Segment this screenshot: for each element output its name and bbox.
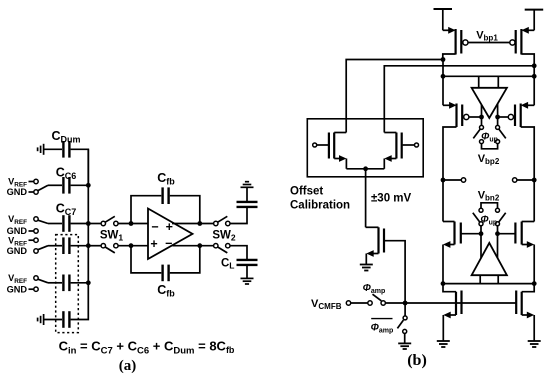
- node sw1-top-fb: [129, 221, 134, 226]
- wire: [246, 187, 248, 202]
- switch SW1 top: [101, 216, 118, 225]
- switch SW2 bottom: [214, 244, 230, 253]
- wire: [71, 282, 89, 284]
- wire M6 gate: [498, 233, 516, 235]
- terminal cal-right: [403, 143, 419, 147]
- capacitor row5: [63, 275, 69, 292]
- wire base stub left: [479, 275, 481, 283]
- wire SW1 top feed: [88, 223, 101, 225]
- wire B to offset-cal right: [384, 66, 534, 133]
- node C: [441, 74, 446, 79]
- node row3-bus: [86, 221, 91, 226]
- ground top-right inverted: [241, 182, 254, 188]
- node out-top: [197, 221, 202, 226]
- wire VCMFB line: [385, 302, 516, 304]
- terminal GND row4: [34, 249, 38, 253]
- wire Vbp2 bracket: [482, 144, 498, 149]
- terminal cal-left: [313, 143, 328, 147]
- terminal GND row5: [29, 287, 39, 291]
- wire right rail upper: [533, 66, 535, 106]
- ground row1 left: [38, 144, 44, 155]
- wire: [71, 245, 89, 247]
- supply rail top-left: [434, 9, 453, 30]
- wire M11 gate: [384, 241, 405, 303]
- wire M2 drain: [521, 54, 534, 66]
- supply rail top-right: [525, 10, 544, 31]
- wire bus: [87, 149, 89, 282]
- node cal-tail: [363, 166, 368, 171]
- wire M3 gate: [469, 116, 482, 118]
- wire feedback top: [131, 196, 161, 224]
- wire M4 gate: [498, 116, 509, 118]
- wire output tap left: [481, 105, 483, 125]
- terminal VCMFB: [346, 301, 350, 305]
- wire output top: [172, 223, 214, 225]
- node out-bottom: [197, 243, 202, 248]
- op-amp cmfb-top triangle: [472, 88, 507, 118]
- wire: [44, 319, 62, 321]
- wire output tap right: [497, 104, 499, 126]
- wire input stub left: [478, 76, 480, 88]
- wire: [351, 302, 368, 304]
- switch phi-up bottom-left: [473, 208, 483, 226]
- wire tap-left bottom: [480, 226, 482, 258]
- capacitor row4: [63, 237, 69, 254]
- wire A to offset-cal left: [346, 60, 443, 133]
- switch phi-amp-bar: [397, 303, 407, 343]
- wire: [170, 196, 200, 224]
- terminal VREF row3: [34, 217, 38, 221]
- op-amp U1: [148, 209, 193, 260]
- node E: [441, 281, 446, 286]
- transistor M7 NMOS bottom-left: [443, 284, 462, 315]
- wire Vbp1 gate: [468, 42, 510, 44]
- offset calibration box: [307, 119, 423, 177]
- switch SW1 bottom: [101, 244, 118, 253]
- wire M9 source arrow: [334, 155, 346, 169]
- wire M10 source arrow: [384, 155, 396, 169]
- wire: [71, 223, 89, 225]
- transistor M9 cal-left: [329, 133, 334, 159]
- transistor M1 PMOS left-top: [456, 29, 468, 55]
- switch phi-up top-right: [496, 125, 506, 143]
- wire M10 drain: [384, 132, 396, 134]
- capacitor CC6: [63, 177, 69, 194]
- wire output bottom: [173, 245, 214, 247]
- transistor M5 NMOS left: [443, 222, 461, 245]
- wire: [118, 245, 148, 247]
- wire feedback bottom: [131, 246, 161, 273]
- node tap-right: [495, 115, 500, 120]
- wire M11 source arrow: [366, 250, 378, 264]
- wire cross rail: [443, 75, 534, 77]
- svg-text:GND: GND: [7, 187, 28, 197]
- svg-text:−: −: [165, 237, 172, 251]
- wire: [246, 265, 248, 279]
- wire: [230, 246, 247, 260]
- node out-right-rail: [532, 178, 537, 183]
- wire left rail upper: [442, 60, 444, 106]
- svg-text:±30 mV: ±30 mV: [371, 193, 412, 205]
- node M5 gate: [479, 231, 484, 236]
- transistor M3 source arrow: [443, 102, 457, 109]
- wire M1 drain: [443, 54, 456, 60]
- node tap-left: [479, 115, 484, 120]
- terminal VREF row2: [29, 179, 39, 183]
- switch lever row2: [38, 185, 48, 190]
- capacitor CC7: [63, 215, 69, 232]
- capacitor CDum: [63, 141, 69, 158]
- wire M5 source arrow: [443, 241, 455, 284]
- transistor M4 PMOS right cascode: [508, 104, 520, 128]
- switch lever row3: [38, 220, 48, 223]
- node VCMFB-junction: [403, 301, 408, 306]
- transistor M6 NMOS right: [515, 222, 534, 245]
- svg-text:Offset: Offset: [290, 186, 323, 198]
- transistor M2 source arrow: [521, 27, 534, 34]
- capacitor Cfb top: [163, 187, 169, 204]
- transistor M10 cal-right: [396, 133, 401, 159]
- svg-text:+: +: [166, 220, 173, 234]
- terminal VREF row4: [29, 238, 39, 242]
- wire input stub right: [497, 76, 499, 88]
- wire out-left stub: [443, 179, 461, 181]
- capacitor row6: [63, 311, 69, 328]
- svg-text:+: +: [150, 237, 157, 251]
- wire: [71, 283, 89, 320]
- transistor M1 source arrow: [443, 27, 456, 34]
- node A: [441, 57, 446, 62]
- transistor M4 source arrow: [521, 102, 535, 109]
- wire out-right stub: [517, 179, 534, 181]
- svg-text:(b): (b): [407, 352, 427, 369]
- svg-text:Calibration: Calibration: [290, 200, 350, 212]
- wire SW1 bottom feed: [88, 245, 101, 247]
- dashed box Cin group: [56, 235, 79, 333]
- wire M5 gate: [461, 233, 481, 235]
- wire cal tail down: [365, 169, 367, 228]
- node M6 gate: [495, 231, 500, 236]
- node row4-bus: [86, 243, 91, 248]
- wire: [230, 207, 247, 224]
- node F: [532, 281, 537, 286]
- terminal out-right: [513, 178, 517, 182]
- terminal GND row2: [29, 190, 39, 194]
- capacitor Cfb bottom: [163, 265, 169, 282]
- wire: [44, 148, 62, 150]
- transistor M3 PMOS left cascode: [457, 104, 469, 128]
- label phi-amp-bar: [371, 319, 394, 335]
- switch phi-amp: [368, 294, 386, 305]
- ground row6 left: [38, 314, 44, 325]
- svg-text:GND: GND: [7, 246, 28, 256]
- node row5-bus: [86, 280, 91, 285]
- op-amp cmfb-bottom triangle: [472, 243, 507, 275]
- svg-text:−: −: [151, 220, 158, 234]
- node row2-bus: [86, 183, 91, 188]
- ground M7: [437, 341, 450, 347]
- wire tap-right bottom: [497, 226, 499, 258]
- wire Vbn2 bracket: [481, 203, 498, 208]
- wire: [48, 282, 62, 284]
- capacitor CL: [237, 260, 258, 265]
- terminal GND row3: [29, 229, 39, 233]
- wire: [170, 246, 200, 273]
- ground phi-amp-bar: [398, 343, 411, 349]
- wire M9 drain: [334, 132, 346, 134]
- node sw1-bot-fb: [129, 243, 134, 248]
- wire M7 source arrow: [443, 312, 456, 341]
- transistor M11 NMOS tail: [366, 227, 384, 253]
- switch lever row4: [38, 246, 48, 250]
- switch phi-up bottom-right: [496, 208, 506, 226]
- switch SW2 top: [214, 216, 230, 225]
- wire cal common: [346, 168, 384, 170]
- node B: [532, 63, 537, 68]
- wire M3 drain: [443, 127, 457, 222]
- wire: [71, 184, 89, 186]
- capacitor load top: [237, 202, 258, 207]
- switch lever row5: [38, 279, 48, 283]
- terminal VREF row5: [34, 276, 38, 280]
- svg-text:GND: GND: [7, 284, 28, 294]
- switch phi-up top-left: [473, 125, 483, 143]
- node D: [532, 74, 537, 79]
- wire M4 drain: [521, 127, 535, 222]
- wire M8 source arrow: [522, 312, 535, 341]
- wire bottom cross: [443, 283, 534, 285]
- terminal out-left: [461, 178, 465, 182]
- ground CL: [241, 278, 254, 284]
- wire: [48, 223, 62, 225]
- wire M6 source arrow: [522, 241, 535, 284]
- wire base stub right: [497, 275, 499, 283]
- node out-left-rail: [441, 178, 446, 183]
- wire: [48, 184, 62, 186]
- wire: [71, 149, 89, 185]
- transistor M8 NMOS bottom-right: [516, 284, 534, 315]
- wire: [118, 223, 148, 225]
- transistor M2 PMOS right-top: [510, 29, 522, 55]
- wire: [48, 245, 62, 247]
- ground M11: [360, 265, 373, 271]
- ground M8: [528, 341, 541, 347]
- svg-text:(a): (a): [119, 358, 137, 374]
